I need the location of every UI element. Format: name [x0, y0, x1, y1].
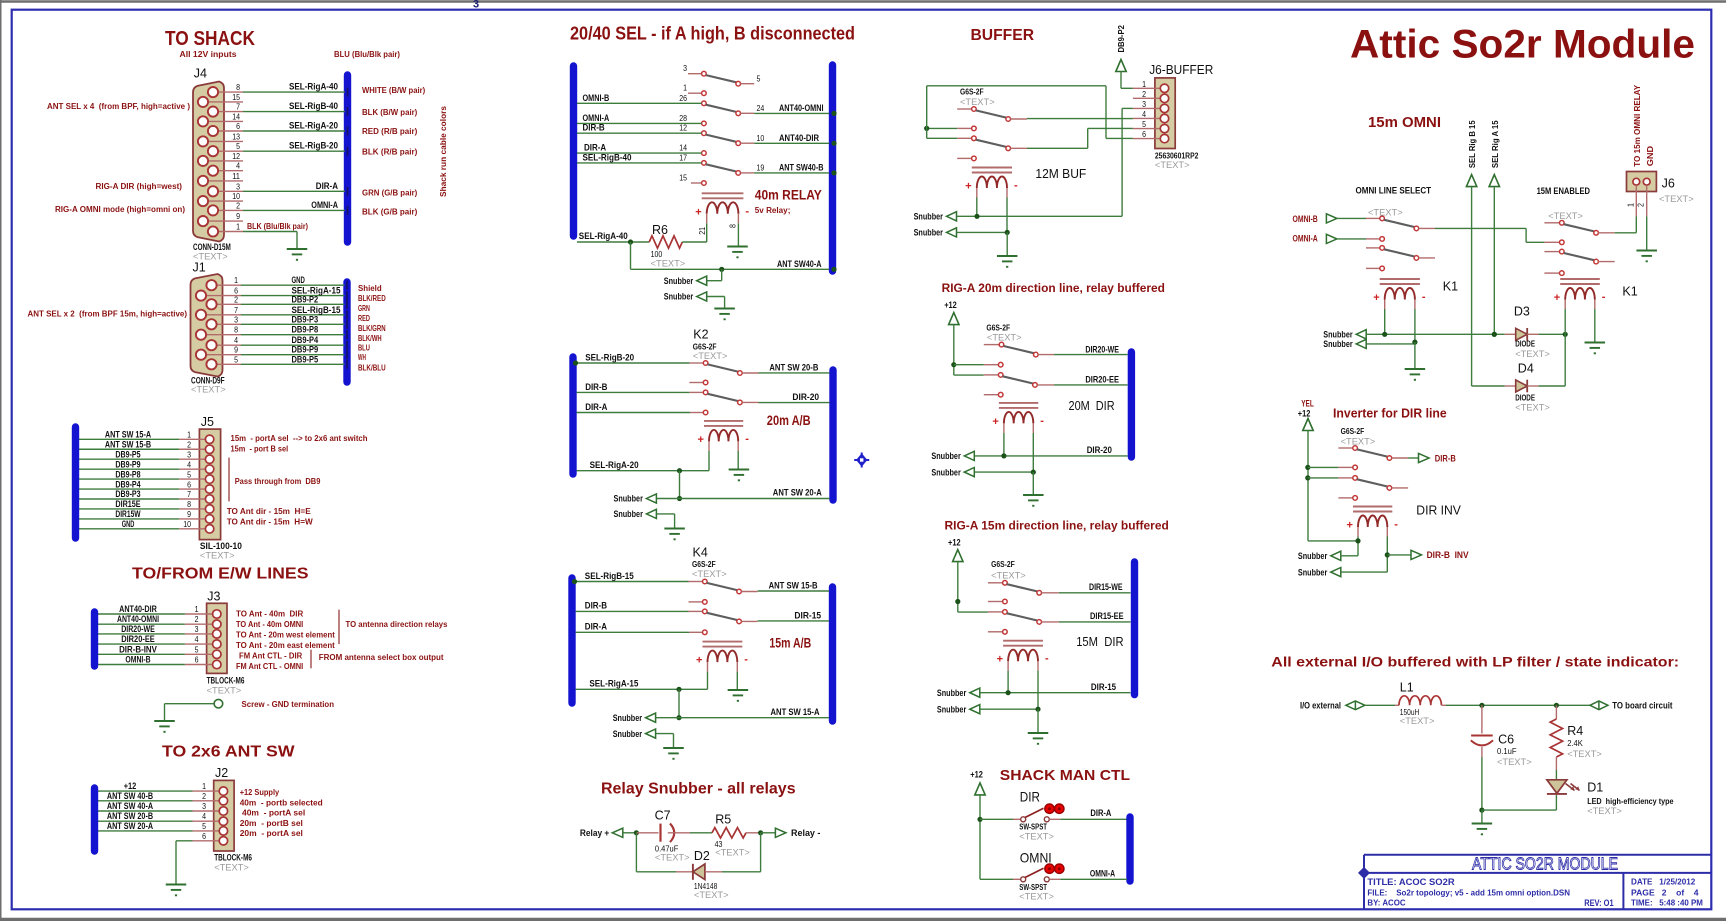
svg-text:DIR-A: DIR-A	[585, 402, 607, 413]
svg-text:<TEXT>: <TEXT>	[207, 686, 242, 696]
svg-text:20M DIR: 20M DIR	[1069, 398, 1115, 413]
svg-text:DB9-P2: DB9-P2	[292, 294, 319, 305]
svg-text:Snubber: Snubber	[914, 212, 944, 222]
svg-text:+: +	[1347, 520, 1353, 532]
svg-text:SEL-RigB-20: SEL-RigB-20	[289, 141, 338, 152]
svg-text:<TEXT>: <TEXT>	[651, 259, 686, 269]
svg-text:SW-SPST: SW-SPST	[1019, 882, 1047, 892]
svg-text:Attic So2r Module: Attic So2r Module	[1350, 23, 1695, 67]
svg-text:<TEXT>: <TEXT>	[1155, 160, 1190, 170]
svg-text:12: 12	[232, 151, 240, 161]
svg-text:D2: D2	[694, 849, 710, 863]
svg-text:TBLOCK-M6: TBLOCK-M6	[207, 676, 245, 686]
svg-text:BUFFER: BUFFER	[971, 27, 1035, 44]
svg-text:Snubber: Snubber	[613, 729, 643, 739]
svg-text:Shack run cable colors: Shack run cable colors	[438, 106, 448, 197]
svg-text:Relay Snubber - all relays: Relay Snubber - all relays	[601, 781, 796, 798]
svg-text:4: 4	[1142, 109, 1146, 119]
svg-text:ANT SW 15-A: ANT SW 15-A	[771, 707, 820, 718]
svg-text:R6: R6	[652, 223, 668, 237]
svg-text:SHACK MAN CTL: SHACK MAN CTL	[1000, 767, 1130, 784]
svg-text:7: 7	[234, 305, 238, 315]
svg-text:OMNI: OMNI	[1020, 850, 1052, 866]
svg-text:9: 9	[187, 509, 191, 519]
svg-text:6: 6	[187, 479, 191, 489]
svg-text:<TEXT>: <TEXT>	[200, 551, 235, 561]
svg-text:DIR INV: DIR INV	[1416, 503, 1461, 518]
svg-text:SEL Rig A 15: SEL Rig A 15	[1490, 120, 1500, 168]
svg-text:TO 2x6 ANT SW: TO 2x6 ANT SW	[162, 744, 295, 761]
svg-text:ANT SW 15-B: ANT SW 15-B	[105, 439, 152, 449]
svg-text:J2: J2	[215, 766, 228, 780]
svg-text:ANT SW 20-A: ANT SW 20-A	[773, 488, 822, 499]
svg-text:DIR-A: DIR-A	[585, 622, 607, 633]
svg-text:<TEXT>: <TEXT>	[960, 97, 995, 107]
svg-text:<TEXT>: <TEXT>	[693, 351, 728, 361]
svg-text:OMNI-A: OMNI-A	[311, 200, 338, 211]
svg-text:TO Ant dir - 15m H=W: TO Ant dir - 15m H=W	[227, 517, 314, 527]
svg-text:-: -	[744, 654, 748, 666]
svg-text:+12: +12	[124, 781, 137, 791]
svg-text:40m RELAY: 40m RELAY	[755, 188, 822, 203]
svg-text:4: 4	[195, 634, 199, 644]
svg-text:GND: GND	[122, 519, 135, 529]
svg-text:TO 15m OMNI RELAY: TO 15m OMNI RELAY	[1632, 85, 1642, 167]
svg-text:20m - portB sel: 20m - portB sel	[240, 818, 303, 828]
svg-text:<TEXT>: <TEXT>	[1567, 749, 1602, 759]
svg-text:BLK (G/B pair): BLK (G/B pair)	[362, 207, 417, 217]
svg-text:C6: C6	[1498, 733, 1514, 747]
svg-text:+12: +12	[948, 538, 961, 548]
svg-text:3: 3	[195, 624, 199, 634]
svg-text:DIR-A: DIR-A	[316, 181, 338, 192]
svg-text:K1: K1	[1622, 285, 1637, 299]
svg-text:20/40 SEL - if A high, B disco: 20/40 SEL - if A high, B disconnected	[570, 24, 855, 44]
svg-text:DIR15E: DIR15E	[115, 499, 140, 509]
svg-text:15m - portA sel --> to 2x6 a: 15m - portA sel --> to 2x6 ant switch	[231, 433, 368, 443]
svg-text:TO Ant - 40m OMNI: TO Ant - 40m OMNI	[236, 619, 303, 629]
svg-text:ANT SW 20-A: ANT SW 20-A	[107, 821, 154, 831]
svg-text:FM Ant CTL - OMNI: FM Ant CTL - OMNI	[236, 661, 303, 671]
svg-text:Snubber: Snubber	[1298, 551, 1328, 561]
svg-text:ANT SW 20-B: ANT SW 20-B	[769, 363, 818, 374]
svg-text:<TEXT>: <TEXT>	[1019, 832, 1054, 842]
svg-text:1: 1	[195, 604, 199, 614]
svg-text:DIR-B-INV: DIR-B-INV	[119, 644, 157, 654]
svg-text:10: 10	[757, 133, 765, 143]
svg-text:<TEXT>: <TEXT>	[692, 569, 727, 579]
svg-text:<TEXT>: <TEXT>	[1400, 716, 1435, 726]
svg-text:17: 17	[679, 152, 687, 162]
svg-text:+12: +12	[1298, 409, 1311, 419]
svg-text:15: 15	[232, 92, 240, 102]
svg-text:DB9-P4: DB9-P4	[115, 479, 140, 489]
svg-text:-: -	[745, 205, 749, 217]
svg-text:OMNI-A: OMNI-A	[1090, 869, 1116, 879]
svg-text:BLK/WH: BLK/WH	[358, 333, 382, 343]
svg-text:G6S-2F: G6S-2F	[991, 559, 1015, 569]
svg-text:<TEXT>: <TEXT>	[1587, 806, 1622, 816]
svg-text:4: 4	[187, 459, 191, 469]
svg-text:14: 14	[232, 111, 240, 121]
svg-text:RIG-A DIR (high=west): RIG-A DIR (high=west)	[96, 181, 183, 191]
svg-text:GRN: GRN	[358, 303, 370, 313]
svg-text:-: -	[1040, 415, 1044, 427]
svg-text:DIR20-WE: DIR20-WE	[121, 624, 155, 634]
svg-text:SEL-RigB-15: SEL-RigB-15	[585, 571, 635, 582]
svg-text:J1: J1	[193, 260, 206, 274]
svg-text:9: 9	[236, 211, 240, 221]
svg-text:BLK/GRN: BLK/GRN	[358, 323, 386, 333]
svg-text:8: 8	[236, 82, 240, 92]
svg-text:OMNI-B: OMNI-B	[583, 93, 610, 104]
svg-text:14: 14	[679, 143, 687, 153]
svg-text:Snubber: Snubber	[614, 509, 644, 519]
svg-text:<TEXT>: <TEXT>	[991, 571, 1026, 581]
svg-text:BLU: BLU	[358, 343, 370, 353]
svg-text:4: 4	[234, 335, 238, 345]
svg-text:3: 3	[234, 314, 238, 324]
svg-text:19: 19	[757, 163, 765, 173]
svg-text:TITLE: ACOC SO2R: TITLE: ACOC SO2R	[1367, 877, 1455, 887]
svg-text:4: 4	[202, 811, 206, 821]
svg-text:9: 9	[234, 345, 238, 355]
svg-text:Snubber: Snubber	[614, 494, 644, 504]
svg-text:BLK/BLU: BLK/BLU	[358, 363, 386, 373]
svg-text:15M DIR: 15M DIR	[1076, 634, 1123, 649]
svg-text:Relay -: Relay -	[791, 828, 820, 838]
svg-text:DB9-P8: DB9-P8	[292, 325, 319, 336]
svg-text:10: 10	[183, 519, 191, 529]
svg-text:D4: D4	[1518, 362, 1534, 376]
svg-text:DB9-P9: DB9-P9	[115, 459, 140, 469]
svg-text:12M BUF: 12M BUF	[1035, 166, 1086, 181]
svg-text:2: 2	[187, 439, 191, 449]
svg-text:GND: GND	[1645, 146, 1655, 166]
svg-text:1: 1	[683, 83, 687, 93]
svg-text:GND: GND	[292, 275, 305, 286]
svg-text:SEL-RigA-40: SEL-RigA-40	[289, 82, 338, 93]
svg-text:RIG-A 15m direction line, rela: RIG-A 15m direction line, relay buffered	[945, 521, 1169, 533]
svg-text:G6S-2F: G6S-2F	[1341, 426, 1365, 436]
svg-text:REV: O1: REV: O1	[1584, 898, 1613, 908]
svg-text:ANT40-DIR: ANT40-DIR	[779, 133, 819, 144]
svg-text:2: 2	[1636, 203, 1646, 207]
svg-text:FILE: So2r topology; v5 - a: FILE: So2r topology; v5 - add 15m omni o…	[1367, 888, 1570, 898]
svg-text:7: 7	[187, 489, 191, 499]
svg-text:-: -	[1422, 291, 1426, 303]
svg-text:J6: J6	[1662, 177, 1675, 191]
svg-text:CONN-D15M: CONN-D15M	[193, 242, 231, 252]
svg-text:Snubber: Snubber	[931, 467, 961, 477]
svg-text:15m OMNI: 15m OMNI	[1368, 115, 1441, 131]
svg-text:2: 2	[236, 200, 240, 210]
svg-text:DIR-B: DIR-B	[583, 123, 605, 134]
svg-text:<TEXT>: <TEXT>	[1659, 194, 1694, 204]
svg-text:DIR-B INV: DIR-B INV	[1427, 550, 1469, 560]
svg-text:R5: R5	[715, 813, 731, 827]
svg-text:I/O external: I/O external	[1300, 701, 1341, 711]
svg-text:TO/FROM E/W LINES: TO/FROM E/W LINES	[132, 566, 309, 583]
svg-text:TIME: 5:48 :40 PM: TIME: 5:48 :40 PM	[1631, 898, 1703, 908]
svg-text:5: 5	[187, 469, 191, 479]
svg-text:Snubber: Snubber	[1323, 330, 1353, 340]
svg-text:-: -	[1014, 180, 1018, 192]
svg-text:ANT40-OMNI: ANT40-OMNI	[779, 103, 824, 114]
svg-text:3: 3	[1142, 99, 1146, 109]
svg-text:100: 100	[651, 249, 663, 259]
svg-text:Inverter for DIR line: Inverter for DIR line	[1333, 407, 1447, 421]
svg-text:2: 2	[202, 791, 206, 801]
svg-text:DIR-20: DIR-20	[1087, 445, 1112, 455]
svg-text:15m - port B sel: 15m - port B sel	[231, 444, 289, 454]
svg-text:TO Ant - 40m DIR: TO Ant - 40m DIR	[236, 609, 304, 619]
svg-text:+12: +12	[970, 770, 983, 780]
svg-text:<TEXT>: <TEXT>	[1515, 403, 1550, 413]
svg-text:TO Ant - 20m west element: TO Ant - 20m west element	[236, 630, 335, 640]
svg-text:DB9-P5: DB9-P5	[292, 354, 319, 365]
svg-text:<TEXT>: <TEXT>	[1548, 211, 1583, 221]
svg-text:DIR-A: DIR-A	[1090, 808, 1111, 818]
svg-text:-: -	[1602, 291, 1606, 303]
svg-text:2: 2	[1142, 89, 1146, 99]
svg-text:1: 1	[234, 275, 238, 285]
svg-text:WH: WH	[358, 352, 366, 362]
svg-text:4: 4	[236, 161, 240, 171]
svg-text:WHITE (B/W pair): WHITE (B/W pair)	[362, 85, 425, 95]
svg-text:BY: ACOC: BY: ACOC	[1367, 898, 1405, 908]
svg-text:+: +	[695, 206, 701, 218]
svg-text:SW-SPST: SW-SPST	[1019, 822, 1047, 832]
svg-text:Shield: Shield	[358, 283, 382, 293]
svg-text:<TEXT>: <TEXT>	[987, 333, 1022, 343]
svg-text:+: +	[696, 655, 702, 667]
svg-text:D1: D1	[1587, 781, 1603, 795]
svg-text:5: 5	[236, 141, 240, 151]
svg-text:3: 3	[236, 181, 240, 191]
svg-text:DIR20-EE: DIR20-EE	[121, 634, 155, 644]
svg-text:24: 24	[757, 103, 765, 113]
svg-text:G6S-2F: G6S-2F	[986, 323, 1010, 333]
svg-text:SEL-RigA-15: SEL-RigA-15	[589, 679, 639, 690]
svg-text:FM Ant CTL - DIR: FM Ant CTL - DIR	[239, 651, 303, 661]
svg-text:3: 3	[202, 801, 206, 811]
svg-text:-: -	[745, 433, 749, 445]
svg-text:All external I/O buffered with: All external I/O buffered with LP filter…	[1271, 655, 1679, 670]
svg-text:ANT SW 40-B: ANT SW 40-B	[107, 791, 154, 801]
svg-text:5: 5	[202, 821, 206, 831]
svg-text:ANT SEL x 2 (from BPF 15m, hi: ANT SEL x 2 (from BPF 15m, high=active)	[28, 309, 188, 319]
svg-text:Snubber: Snubber	[1298, 567, 1328, 577]
svg-text:J3: J3	[207, 590, 220, 604]
svg-text:<TEXT>: <TEXT>	[1019, 892, 1054, 902]
svg-text:LED high-efficiency type: LED high-efficiency type	[1587, 796, 1674, 806]
svg-text:12: 12	[679, 123, 687, 133]
svg-text:DIR-15: DIR-15	[1091, 682, 1116, 692]
svg-text:G6S-2F: G6S-2F	[693, 342, 717, 352]
svg-text:+12: +12	[944, 300, 957, 310]
svg-text:K2: K2	[693, 328, 708, 342]
svg-text:3: 3	[473, 0, 479, 11]
svg-text:L1: L1	[1400, 681, 1414, 695]
svg-text:ANT SW 15-A: ANT SW 15-A	[105, 430, 152, 440]
svg-text:DIR15-WE: DIR15-WE	[1089, 582, 1123, 592]
svg-text:GRN (G/B pair): GRN (G/B pair)	[362, 188, 417, 198]
svg-text:1: 1	[187, 430, 191, 440]
svg-text:5v Relay;: 5v Relay;	[755, 205, 791, 215]
svg-text:Snubber: Snubber	[613, 713, 643, 723]
svg-text:20m A/B: 20m A/B	[767, 413, 811, 428]
svg-text:3: 3	[683, 63, 687, 73]
svg-text:ANT40-DIR: ANT40-DIR	[119, 604, 157, 614]
svg-text:0.1uF: 0.1uF	[1497, 746, 1517, 756]
svg-text:+: +	[698, 434, 704, 446]
svg-text:Snubber: Snubber	[914, 228, 944, 238]
svg-text:+: +	[965, 181, 971, 193]
svg-text:1: 1	[202, 781, 206, 791]
svg-text:21: 21	[697, 227, 707, 235]
svg-text:ANT SW40-B: ANT SW40-B	[779, 163, 824, 174]
svg-text:J5: J5	[201, 415, 214, 429]
svg-text:OMNI-A: OMNI-A	[1293, 234, 1319, 244]
svg-text:+: +	[1373, 292, 1379, 304]
svg-text:Snubber: Snubber	[664, 276, 694, 286]
svg-text:PAGE 2 of 4: PAGE 2 of 4	[1631, 888, 1699, 898]
svg-text:25630601RP2: 25630601RP2	[1155, 150, 1199, 160]
svg-text:DATE 1/25/2012: DATE 1/25/2012	[1631, 877, 1696, 887]
svg-text:DB9-P2: DB9-P2	[1116, 25, 1126, 53]
svg-text:6: 6	[1142, 129, 1146, 139]
svg-text:BLK (B/W pair): BLK (B/W pair)	[362, 107, 417, 117]
svg-text:TO antenna direction relays: TO antenna direction relays	[346, 619, 448, 629]
svg-text:2: 2	[234, 294, 238, 304]
svg-text:Snubber: Snubber	[931, 451, 961, 461]
svg-text:ANT SW 20-B: ANT SW 20-B	[107, 811, 154, 821]
svg-text:26: 26	[679, 93, 687, 103]
svg-text:SEL-RigB-20: SEL-RigB-20	[585, 353, 634, 364]
svg-text:OMNI LINE SELECT: OMNI LINE SELECT	[1356, 185, 1432, 195]
svg-text:2.4K: 2.4K	[1567, 738, 1583, 748]
svg-text:TO Ant dir - 15m H=E: TO Ant dir - 15m H=E	[227, 506, 311, 516]
svg-text:DIODE: DIODE	[1515, 339, 1535, 349]
svg-text:DB9-P3: DB9-P3	[292, 314, 319, 325]
svg-text:DB9-P3: DB9-P3	[115, 489, 140, 499]
svg-text:J6-BUFFER: J6-BUFFER	[1149, 63, 1213, 77]
svg-text:ANT SEL x 4 (from BPF, high=a: ANT SEL x 4 (from BPF, high=active )	[47, 101, 190, 111]
svg-text:DB9-P5: DB9-P5	[115, 449, 140, 459]
svg-text:ATTIC SO2R MODULE: ATTIC SO2R MODULE	[1472, 854, 1618, 874]
svg-text:7: 7	[236, 102, 240, 112]
svg-text:BLK/RED: BLK/RED	[358, 293, 386, 303]
svg-text:13: 13	[232, 131, 240, 141]
svg-text:+: +	[1554, 292, 1560, 304]
svg-text:8: 8	[234, 325, 238, 335]
svg-text:TBLOCK-M6: TBLOCK-M6	[214, 853, 252, 863]
svg-text:Snubber: Snubber	[664, 292, 694, 302]
svg-text:5: 5	[757, 73, 761, 83]
svg-text:RIG-A OMNI mode (high=omni on): RIG-A OMNI mode (high=omni on)	[55, 204, 185, 214]
svg-text:<TEXT>: <TEXT>	[1497, 757, 1532, 767]
svg-text:ANT SW 40-A: ANT SW 40-A	[107, 801, 154, 811]
svg-text:ANT SW 15-B: ANT SW 15-B	[769, 581, 818, 592]
svg-text:6: 6	[202, 831, 206, 841]
svg-text:DIR-B: DIR-B	[1435, 453, 1456, 463]
svg-text:DIR-20: DIR-20	[792, 392, 819, 403]
svg-text:40m - portA sel: 40m - portA sel	[242, 808, 305, 818]
svg-text:+: +	[992, 416, 998, 428]
svg-text:+: +	[997, 654, 1003, 666]
svg-text:<TEXT>: <TEXT>	[1515, 349, 1550, 359]
svg-text:DIR-15: DIR-15	[794, 610, 821, 621]
svg-text:DIODE: DIODE	[1515, 393, 1535, 403]
svg-text:11: 11	[232, 171, 240, 181]
svg-text:FROM antenna select box output: FROM antenna select box output	[319, 652, 444, 662]
svg-text:<TEXT>: <TEXT>	[715, 848, 750, 858]
svg-text:SEL Rig B 15: SEL Rig B 15	[1467, 120, 1477, 168]
svg-text:20m - portA sel: 20m - portA sel	[240, 828, 303, 838]
svg-text:All 12V inputs: All 12V inputs	[180, 49, 237, 59]
svg-text:-: -	[1394, 519, 1398, 531]
svg-text:BLK (R/B pair): BLK (R/B pair)	[362, 147, 417, 157]
svg-text:3: 3	[187, 449, 191, 459]
svg-text:Pass through from DB9: Pass through from DB9	[235, 476, 321, 486]
svg-text:5: 5	[234, 354, 238, 364]
svg-text:SEL-RigA-20: SEL-RigA-20	[590, 460, 639, 471]
svg-text:<TEXT>: <TEXT>	[214, 863, 249, 873]
svg-text:1: 1	[1625, 203, 1635, 207]
svg-text:15m A/B: 15m A/B	[769, 636, 811, 651]
svg-text:40m - portb selected: 40m - portb selected	[240, 797, 323, 807]
svg-text:OMNI-B: OMNI-B	[1293, 214, 1319, 224]
svg-text:DIR20-EE: DIR20-EE	[1085, 374, 1119, 384]
svg-text:<TEXT>: <TEXT>	[191, 385, 226, 395]
svg-text:SEL-RigB-40: SEL-RigB-40	[583, 152, 632, 163]
svg-text:TO Ant - 20m east element: TO Ant - 20m east element	[236, 640, 335, 650]
svg-text:DIR-B: DIR-B	[585, 601, 607, 612]
svg-text:<TEXT>: <TEXT>	[1341, 437, 1376, 447]
svg-text:Snubber: Snubber	[937, 704, 967, 714]
svg-text:1: 1	[236, 222, 240, 232]
svg-text:-: -	[1045, 653, 1049, 665]
svg-text:BLU (Blu/Blk pair): BLU (Blu/Blk pair)	[334, 49, 400, 59]
svg-text:6: 6	[195, 655, 199, 665]
svg-text:SIL-100-10: SIL-100-10	[200, 541, 242, 551]
svg-text:Snubber: Snubber	[1323, 339, 1353, 349]
svg-text:<TEXT>: <TEXT>	[1368, 208, 1403, 218]
svg-text:G6S-2F: G6S-2F	[692, 559, 716, 569]
svg-text:DIR15W: DIR15W	[115, 509, 141, 519]
svg-text:15M ENABLED: 15M ENABLED	[1537, 186, 1591, 196]
svg-text:5: 5	[1142, 119, 1146, 129]
svg-text:8: 8	[728, 224, 738, 228]
svg-text:1: 1	[1142, 79, 1146, 89]
svg-text:K4: K4	[693, 546, 708, 560]
svg-text:K1: K1	[1443, 280, 1458, 294]
svg-text:Relay +: Relay +	[580, 828, 609, 838]
svg-text:15: 15	[679, 173, 687, 183]
svg-text:J4: J4	[194, 66, 207, 80]
svg-text:BLK (Blu/Blk pair): BLK (Blu/Blk pair)	[247, 221, 308, 231]
svg-text:DIR15-EE: DIR15-EE	[1090, 611, 1124, 621]
svg-text:TO SHACK: TO SHACK	[165, 27, 255, 50]
svg-text:SEL-RigB-40: SEL-RigB-40	[289, 101, 338, 112]
svg-text:+12 Supply: +12 Supply	[240, 787, 280, 797]
svg-text:YEL: YEL	[1301, 399, 1314, 409]
svg-text:6: 6	[236, 121, 240, 131]
svg-text:G6S-2F: G6S-2F	[960, 87, 984, 97]
svg-text:OMNI-B: OMNI-B	[125, 655, 151, 665]
svg-text:5: 5	[195, 644, 199, 654]
